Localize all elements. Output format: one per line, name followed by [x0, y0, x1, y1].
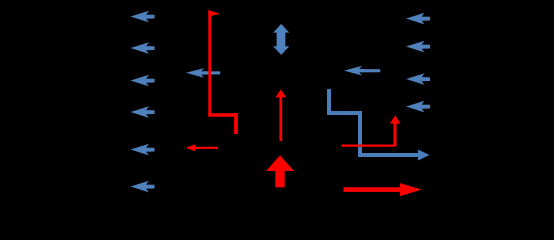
red small left arrow [186, 144, 218, 151]
right column arrow 2 [406, 41, 430, 53]
mid-right blue arrow [344, 66, 380, 76]
thick red right arrow [344, 183, 422, 196]
left column arrow 1 [131, 11, 155, 23]
thin red up arrow (center) [275, 89, 286, 141]
left column arrow 4 [131, 106, 155, 118]
right column arrow 4 [406, 101, 430, 113]
thick red up arrow [266, 155, 294, 187]
mid-left blue arrow crossing red line [186, 68, 220, 78]
left column arrow 2 [131, 42, 155, 54]
blue vertical double-headed arrow [273, 24, 289, 55]
right column arrow 1 [406, 13, 430, 25]
blue bent line with right arrowhead [329, 89, 430, 161]
left column arrow 6 [131, 181, 155, 193]
left column arrow 3 [131, 75, 155, 87]
red squiggle line with up arrowhead [342, 115, 401, 146]
red bent line with top flag [208, 10, 237, 134]
left column arrow 5 [131, 144, 155, 156]
right column arrow 3 [406, 73, 430, 85]
